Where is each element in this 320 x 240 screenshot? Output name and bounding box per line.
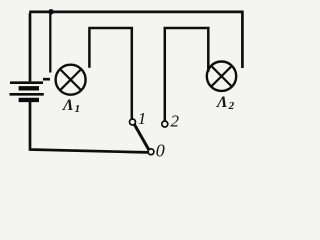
- svg-text:1: 1: [138, 109, 147, 128]
- svg-text:0: 0: [156, 141, 165, 161]
- svg-text:2: 2: [171, 112, 180, 131]
